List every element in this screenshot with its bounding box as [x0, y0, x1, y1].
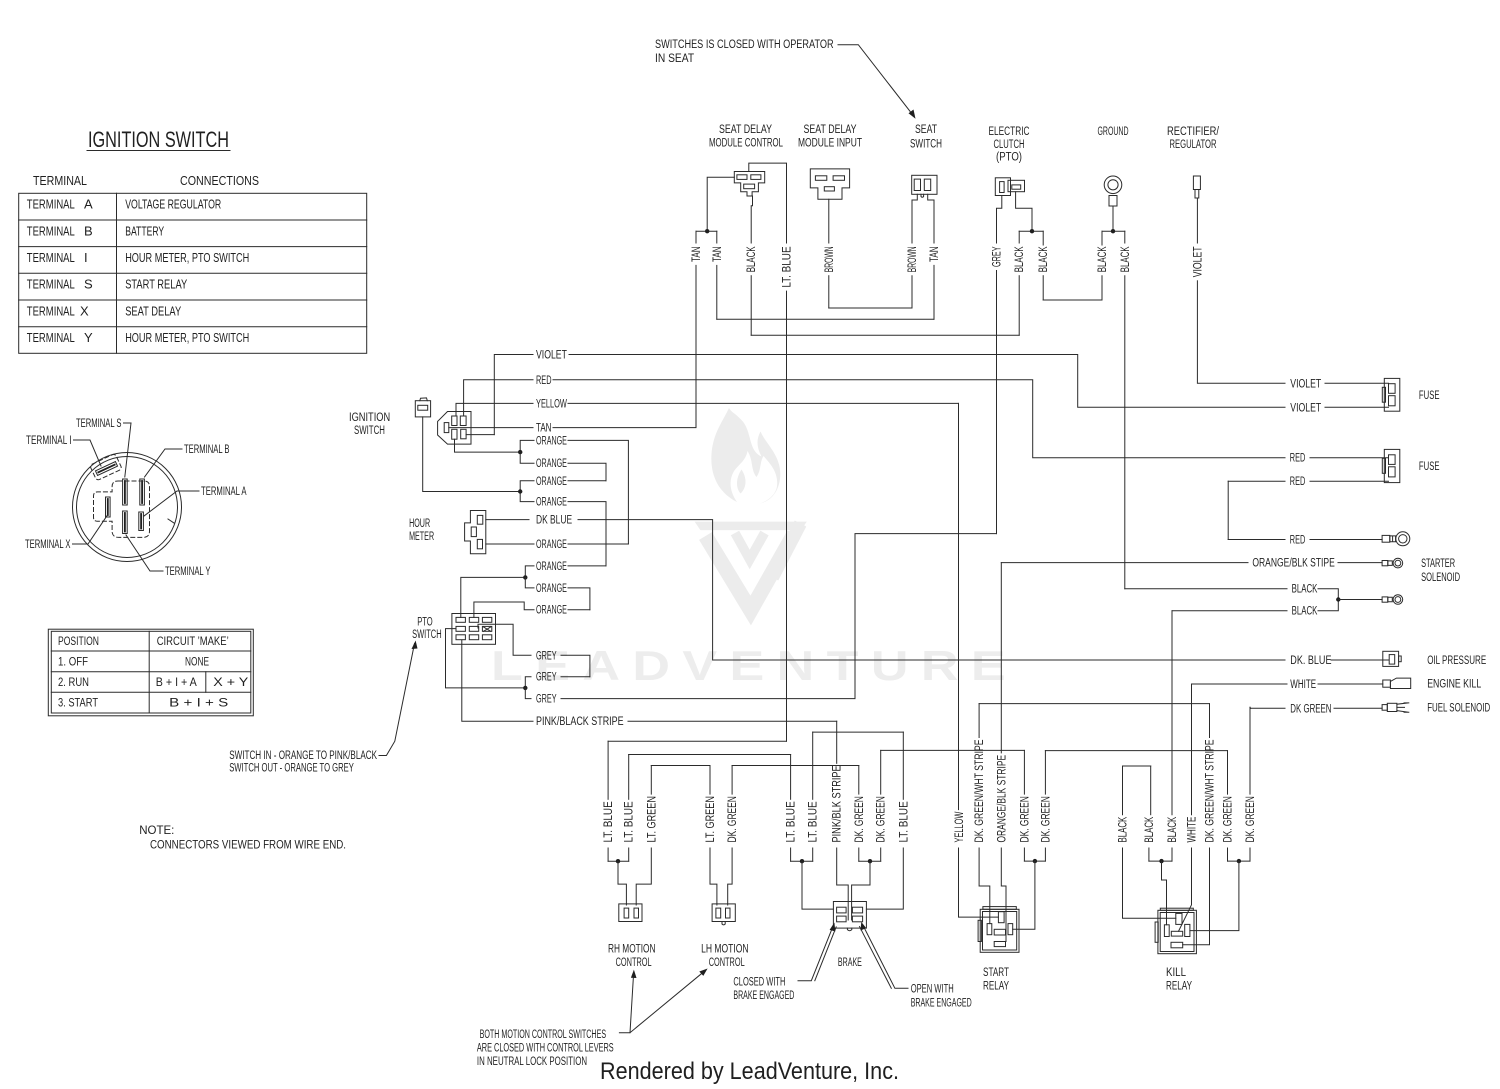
wire brown bus — [829, 307, 912, 309]
svg-text:RED: RED — [1290, 453, 1306, 465]
wire lt blue1 top link — [608, 740, 786, 742]
svg-text:TAN: TAN — [929, 246, 941, 262]
wire pink/black right — [628, 720, 837, 722]
wire start green to relay — [1013, 861, 1035, 929]
connector rectifier/regulator terminal — [1193, 176, 1200, 198]
wire black1 feed from connector — [751, 196, 752, 243]
wire orange2 right — [568, 463, 606, 481]
svg-text:IGNITION SWITCH: IGNITION SWITCH — [88, 127, 229, 152]
wire grey3 left — [525, 688, 531, 699]
connector fuel solenoid bullet — [1382, 703, 1409, 712]
wire dk green3 lower — [880, 848, 882, 861]
svg-text:X + Y: X + Y — [213, 677, 248, 689]
svg-text:DK. GREEN: DK. GREEN — [1223, 796, 1235, 842]
wire yellow lower — [959, 848, 999, 917]
watermark emblem small v — [735, 533, 765, 560]
terminal connections table — [19, 193, 367, 353]
wire black1 vertical lower — [750, 276, 752, 336]
wire tan2 vertical upper — [716, 231, 718, 243]
wire dk green k2 upper — [1227, 751, 1229, 795]
svg-text:TERMINAL Y: TERMINAL Y — [165, 566, 211, 578]
terminal Y bar — [123, 511, 128, 534]
svg-text:X: X — [80, 303, 89, 318]
connector PTO switch — [452, 614, 496, 645]
wire white to engine kill — [1318, 683, 1383, 685]
svg-text:BLACK: BLACK — [1014, 246, 1026, 272]
svg-text:LT. GREEN: LT. GREEN — [646, 796, 658, 842]
wire lt blue3 lower — [790, 848, 792, 861]
wire lt blue2 top link — [629, 754, 791, 756]
svg-text:ORANGE/BLK STRIPE: ORANGE/BLK STRIPE — [996, 755, 1008, 843]
wire lt blue5 lower — [866, 848, 903, 909]
wire grey clutch feed — [997, 196, 1002, 244]
svg-text:TERMINAL A: TERMINAL A — [201, 486, 247, 498]
wire brown1 feed — [828, 199, 830, 243]
svg-text:BLACK: BLACK — [1167, 816, 1179, 842]
wire red3 left — [1228, 539, 1285, 541]
wire dk grn/wht s upper — [978, 704, 980, 738]
svg-text:WHITE: WHITE — [1290, 679, 1316, 691]
svg-text:GREY: GREY — [536, 672, 557, 684]
wire pink/blk upper — [836, 721, 838, 763]
wire black k3 lower — [1171, 848, 1173, 861]
wire lt blue4 lower — [812, 848, 814, 861]
svg-text:1. OFF: 1. OFF — [58, 657, 88, 669]
wire dk green2 upper — [858, 766, 860, 795]
junction orange1-2 — [518, 450, 522, 454]
watermark emblem band — [695, 522, 807, 531]
wire grey2 left — [525, 677, 531, 688]
wire tan bus at ground of seat delay — [696, 230, 717, 232]
svg-text:DK GREEN: DK GREEN — [1290, 703, 1331, 715]
svg-text:GREY: GREY — [536, 650, 557, 662]
connector ignition switch plug — [438, 412, 471, 445]
svg-text:LH MOTION: LH MOTION — [701, 944, 749, 956]
junction black clutch — [1030, 229, 1034, 233]
wire lt blue4 upper — [812, 732, 814, 799]
svg-text:DK. GREEN: DK. GREEN — [876, 796, 888, 842]
wire orange/blk left — [1001, 562, 1248, 564]
svg-text:LEADVENTURE: LEADVENTURE — [491, 643, 1006, 690]
junction start green — [1033, 859, 1037, 863]
wire black k1k2 bus — [1123, 765, 1151, 767]
wire orange feed from ign pin — [455, 439, 521, 452]
svg-text:HOUR METER, PTO SWITCH: HOUR METER, PTO SWITCH — [125, 250, 249, 265]
ring terminal black ground — [1382, 595, 1403, 605]
svg-text:DK BLUE: DK BLUE — [536, 515, 572, 527]
svg-text:KILL: KILL — [1166, 967, 1186, 979]
svg-text:TAN: TAN — [691, 246, 703, 262]
wire orange2 left — [520, 452, 534, 463]
wire violet left — [494, 355, 533, 435]
svg-text:BRAKE ENGAGED: BRAKE ENGAGED — [733, 990, 794, 1002]
leader closed-with — [798, 926, 833, 981]
svg-text:IN NEUTRAL LOCK POSITION: IN NEUTRAL LOCK POSITION — [477, 1056, 587, 1068]
svg-text:LT. BLUE: LT. BLUE — [898, 801, 910, 842]
wire orange9 right — [568, 609, 590, 611]
wire ground stem — [1112, 206, 1114, 231]
terminal X bar — [106, 497, 111, 517]
terminal A bar — [139, 512, 144, 531]
wire lt blue top link — [749, 163, 787, 243]
wire orange3 right — [568, 480, 606, 482]
wire lt green1 lower — [636, 848, 651, 905]
wire orange7 left — [525, 566, 534, 578]
svg-text:SWITCH: SWITCH — [354, 425, 385, 437]
svg-text:HOUR METER, PTO SWITCH: HOUR METER, PTO SWITCH — [125, 330, 249, 345]
wire brown2 vertical lower — [911, 276, 913, 308]
wire dk grn/wht bus — [979, 703, 1209, 705]
svg-text:DK. GREEN: DK. GREEN — [854, 796, 866, 842]
wire grey1 right — [561, 655, 590, 676]
wire dk blue right — [578, 520, 1285, 660]
wire orange/blk to ring — [1338, 562, 1382, 564]
wire black r2 left — [1172, 610, 1287, 612]
wire black2 vertical upper — [1018, 231, 1020, 243]
svg-text:DK. BLUE: DK. BLUE — [1290, 655, 1331, 667]
svg-text:ORANGE/BLK STIPE: ORANGE/BLK STIPE — [1252, 558, 1335, 570]
svg-text:DK. GREEN/WHT STRIPE: DK. GREEN/WHT STRIPE — [1205, 739, 1217, 842]
wire orange3 left — [520, 481, 534, 492]
svg-text:VIOLET: VIOLET — [1192, 246, 1204, 277]
wire rh blue to connector — [618, 861, 626, 905]
svg-text:BLACK: BLACK — [1118, 816, 1130, 842]
svg-text:HOUR: HOUR — [409, 518, 430, 530]
svg-text:LT. BLUE: LT. BLUE — [786, 801, 798, 842]
wire start green bus — [1024, 860, 1045, 862]
svg-text:YELLOW: YELLOW — [536, 398, 567, 410]
svg-text:NOTE:: NOTE: — [139, 825, 174, 837]
wire orange8 left — [525, 577, 534, 588]
wire dk grn/wht k lower — [1183, 848, 1210, 945]
wire orange/blk s lower — [1001, 848, 1006, 942]
svg-text:SEAT DELAY: SEAT DELAY — [804, 124, 857, 136]
wire orange4 right — [568, 502, 606, 566]
wire dk green k3 upper — [1249, 707, 1251, 794]
svg-text:BLACK: BLACK — [1292, 606, 1318, 618]
wire black to ring — [1338, 599, 1382, 601]
wire orange6 right — [568, 543, 628, 545]
wire key switch feed — [423, 417, 521, 492]
svg-text:A: A — [84, 197, 93, 212]
svg-text:RED: RED — [1290, 535, 1306, 547]
wire orange/blk s upper — [1000, 563, 1002, 753]
wire black k2 lower — [1148, 848, 1150, 861]
wire black5 vertical upper — [1124, 231, 1126, 243]
svg-text:DK. GREEN: DK. GREEN — [1245, 796, 1257, 842]
wire red2 to fuse — [1310, 480, 1389, 482]
wire grey3 right long — [561, 534, 997, 699]
svg-text:BLACK: BLACK — [1120, 246, 1132, 272]
wire kill black to relay — [1162, 861, 1167, 925]
svg-text:ORANGE: ORANGE — [536, 458, 567, 470]
wire black k2 upper — [1150, 766, 1152, 815]
svg-text:SEAT DELAY: SEAT DELAY — [125, 303, 181, 318]
connector seat delay module control — [734, 172, 764, 197]
ground symbol — [1104, 176, 1122, 206]
wire dk green s1 lower — [1023, 848, 1025, 861]
svg-text:ORANGE: ORANGE — [536, 497, 567, 509]
svg-text:ORANGE: ORANGE — [536, 476, 567, 488]
svg-text:ORANGE: ORANGE — [536, 561, 567, 573]
wire dk green k3 lower — [1249, 848, 1251, 861]
svg-text:B + I + A: B + I + A — [156, 677, 197, 689]
svg-text:BRAKE ENGAGED: BRAKE ENGAGED — [911, 998, 972, 1010]
svg-text:CLUTCH: CLUTCH — [994, 139, 1025, 151]
terminal S bar — [123, 479, 128, 505]
wire black3-black4 link — [1043, 299, 1102, 301]
svg-text:SOLENOID: SOLENOID — [1421, 572, 1460, 584]
svg-text:BLACK: BLACK — [1097, 246, 1109, 272]
wire black5 vertical lower — [1124, 276, 1126, 589]
connector fuse 1 — [1382, 378, 1400, 411]
ring terminal starter solenoid — [1382, 558, 1403, 568]
relay kill relay — [1155, 908, 1196, 954]
wire tan1 feed: bus to seat-delay-ctrl — [707, 177, 734, 231]
wire dk green bus to brake — [732, 765, 859, 767]
wire red3 to ring — [1310, 539, 1382, 541]
wire lt blue1 lower — [607, 848, 609, 861]
wire black3 vertical lower — [1042, 276, 1044, 300]
wire grey1 left — [478, 624, 531, 655]
position / circuit make table — [48, 629, 253, 716]
svg-text:ENGINE KILL: ENGINE KILL — [1427, 679, 1481, 691]
svg-text:IN SEAT: IN SEAT — [655, 53, 694, 65]
connector oil pressure — [1383, 651, 1401, 666]
wire red2 left — [1228, 480, 1285, 482]
svg-text:ORANGE: ORANGE — [536, 605, 567, 617]
wire dk grn/wht k upper — [1209, 704, 1211, 738]
wire dk green to fuel solenoid — [1334, 707, 1382, 709]
svg-text:MODULE INPUT: MODULE INPUT — [798, 138, 862, 150]
svg-text:S: S — [84, 277, 93, 292]
svg-text:PINK/BLK STRIPE: PINK/BLK STRIPE — [832, 765, 844, 842]
wire kill green to relay — [1190, 861, 1239, 931]
wire violet1 to fuse — [1325, 382, 1389, 384]
svg-text:CLOSED WITH: CLOSED WITH — [733, 977, 785, 989]
wire dk blue to oil pressure — [1331, 659, 1389, 661]
svg-text:CONNECTIONS: CONNECTIONS — [180, 173, 259, 188]
svg-text:I: I — [84, 250, 88, 265]
junction orange3-4 — [518, 489, 522, 493]
wire black r2 right — [1318, 600, 1338, 611]
wire tan2 vertical lower — [716, 265, 718, 319]
svg-text:CONTROL: CONTROL — [709, 957, 745, 969]
wire dk green s2 lower — [1044, 848, 1046, 861]
wire black k1 upper — [1122, 766, 1124, 815]
wire orange7 right — [568, 565, 606, 567]
junction black ring — [1336, 597, 1340, 601]
svg-text:FUEL SOLENOID: FUEL SOLENOID — [1427, 703, 1490, 715]
svg-text:GREY: GREY — [536, 694, 557, 706]
svg-text:TERMINAL I: TERMINAL I — [26, 435, 72, 447]
wire pink/black feed — [462, 640, 533, 721]
wire red1 to fuse — [1310, 457, 1389, 459]
svg-text:LT. GREEN: LT. GREEN — [705, 796, 717, 842]
wire white left — [1192, 683, 1287, 685]
wire orange1 right — [568, 440, 628, 544]
wire black4 vertical lower — [1101, 276, 1103, 300]
wire tan bus to seat switch — [717, 318, 934, 320]
svg-text:SWITCHES IS CLOSED WITH OPERAT: SWITCHES IS CLOSED WITH OPERATOR — [655, 39, 834, 51]
wire black k1 lower — [1123, 848, 1176, 918]
leader to PTO switch label — [379, 644, 415, 756]
wire lt blue3 upper — [790, 755, 792, 800]
svg-text:ORANGE: ORANGE — [536, 539, 567, 551]
svg-text:RH MOTION: RH MOTION — [608, 944, 656, 956]
svg-text:LT. BLUE: LT. BLUE — [808, 801, 820, 842]
svg-text:TERMINAL: TERMINAL — [27, 197, 75, 212]
svg-text:RELAY: RELAY — [983, 981, 1009, 993]
wire brake green bus — [859, 860, 881, 862]
svg-text:FUSE: FUSE — [1419, 390, 1440, 402]
wire dk green left — [1251, 707, 1285, 709]
svg-text:OIL PRESSURE: OIL PRESSURE — [1427, 655, 1486, 667]
wire violet right — [569, 355, 1285, 408]
junction kill black — [1159, 859, 1163, 863]
svg-text:METER: METER — [409, 531, 434, 543]
wire lt blue2 upper — [628, 755, 630, 800]
svg-text:LT. BLUE: LT. BLUE — [624, 801, 636, 842]
svg-text:MODULE CONTROL: MODULE CONTROL — [709, 138, 783, 150]
leader open-with — [863, 925, 908, 988]
svg-text:OPEN WITH: OPEN WITH — [911, 984, 954, 996]
junction brake green — [868, 859, 872, 863]
svg-text:TERMINAL S: TERMINAL S — [76, 418, 122, 430]
wire dk green k3 top link — [1249, 707, 1252, 708]
svg-text:TAN: TAN — [536, 423, 552, 435]
svg-text:Rendered by LeadVenture, Inc.: Rendered by LeadVenture, Inc. — [600, 1058, 899, 1085]
svg-text:FUSE: FUSE — [1419, 461, 1440, 473]
svg-text:BROWN: BROWN — [824, 246, 836, 272]
wire violet2 to fuse — [1325, 406, 1389, 408]
wire ground bus — [1102, 230, 1125, 232]
watermark emblem big V — [706, 534, 795, 611]
wire black3 vertical upper — [1042, 231, 1044, 245]
svg-text:SWITCH: SWITCH — [412, 629, 442, 641]
wire yellow left — [456, 403, 533, 416]
wire lt blue2 lower — [628, 848, 630, 861]
svg-text:CONTROL: CONTROL — [616, 957, 652, 969]
wire violet1 left — [1198, 382, 1285, 384]
svg-text:TERMINAL X: TERMINAL X — [25, 539, 71, 551]
svg-text:BLACK: BLACK — [1292, 584, 1318, 596]
svg-text:BROWN: BROWN — [907, 246, 919, 272]
wire lt green bus — [651, 765, 710, 767]
svg-text:BLACK: BLACK — [1038, 246, 1050, 272]
svg-text:B: B — [84, 223, 93, 238]
svg-text:VIOLET: VIOLET — [1290, 378, 1321, 390]
connector LH motion control — [712, 904, 735, 925]
wire orange4 left — [520, 492, 534, 502]
svg-text:ORANGE: ORANGE — [536, 435, 567, 447]
junction tan pair — [705, 229, 709, 233]
svg-text:SWITCH OUT - ORANGE TO GREY: SWITCH OUT - ORANGE TO GREY — [229, 763, 354, 775]
wire red right — [553, 380, 1285, 458]
wire pink/blk lower — [837, 848, 849, 920]
wire violet rectifier upper — [1196, 198, 1198, 243]
connector seat delay module input — [810, 169, 849, 199]
svg-text:VIOLET: VIOLET — [1290, 402, 1321, 414]
connector fuse 2 — [1382, 449, 1400, 482]
ring terminal red (battery) — [1382, 532, 1410, 546]
dashed housing around pins — [90, 453, 150, 537]
connector engine kill spade — [1383, 678, 1411, 688]
svg-text:DK. GREEN: DK. GREEN — [1040, 796, 1052, 842]
svg-text:IGNITION: IGNITION — [349, 412, 390, 424]
terminal B bar — [140, 479, 145, 505]
watermark LeadVenture logo flame — [711, 408, 780, 504]
svg-text:BOTH MOTION CONTROL SWITCHES: BOTH MOTION CONTROL SWITCHES — [480, 1029, 607, 1041]
svg-text:START: START — [983, 967, 1009, 979]
wire orange8 right — [568, 588, 590, 610]
wire dk blue left — [486, 519, 529, 521]
wire tan3 jog at seat switch — [928, 194, 934, 243]
svg-text:DK. GREEN: DK. GREEN — [1019, 796, 1031, 842]
svg-text:LT. BLUE: LT. BLUE — [782, 246, 794, 287]
wire grey vertical long — [996, 271, 998, 534]
svg-text:3. START: 3. START — [58, 698, 98, 710]
svg-text:RECTIFIER/: RECTIFIER/ — [1167, 126, 1220, 138]
svg-text:DK. GREEN/WHT STRIPE: DK. GREEN/WHT STRIPE — [974, 739, 986, 842]
svg-text:BRAKE: BRAKE — [838, 957, 862, 969]
junction grey2-3 — [523, 686, 527, 690]
svg-text:ORANGE: ORANGE — [536, 583, 567, 595]
wire black bus to clutch — [751, 334, 1019, 336]
wire dk green s2 top link — [1045, 750, 1227, 752]
wire kill green bus — [1228, 860, 1251, 862]
wire violet rectifier lower — [1196, 281, 1198, 384]
svg-text:TERMINAL: TERMINAL — [27, 250, 75, 265]
connector RH motion control — [619, 904, 642, 922]
wire red2-red3 link — [1227, 481, 1229, 539]
wire red left — [464, 380, 533, 416]
svg-text:2. RUN: 2. RUN — [58, 677, 89, 689]
wire black clutch right feed — [1016, 192, 1032, 232]
svg-text:ARE CLOSED WITH CONTROL LEVERS: ARE CLOSED WITH CONTROL LEVERS — [477, 1043, 614, 1055]
connector brake switch — [833, 902, 866, 931]
wire dk grn/wht s lower — [979, 848, 990, 924]
wire tan1 vertical lower + to TAN label — [553, 265, 696, 427]
wire black2 vertical lower — [1018, 276, 1020, 336]
wire brake blue to connector — [802, 861, 833, 909]
svg-text:BLACK: BLACK — [1144, 816, 1156, 842]
svg-text:Y: Y — [84, 330, 93, 345]
junction orange7-8 — [523, 575, 527, 579]
junction ground — [1111, 229, 1115, 233]
wire lt blue4-5 bus top — [813, 731, 904, 733]
wire lt blue vertical long — [786, 291, 788, 741]
wire orange1 left — [520, 440, 534, 452]
svg-text:GROUND: GROUND — [1098, 126, 1129, 138]
svg-text:TERMINAL: TERMINAL — [27, 330, 75, 345]
svg-text:BLACK: BLACK — [746, 246, 758, 272]
wire pto feed orange7 — [461, 577, 526, 617]
wire yellow long — [958, 403, 960, 809]
svg-text:TAN: TAN — [712, 246, 724, 262]
svg-text:STARTER: STARTER — [1421, 558, 1455, 570]
svg-text:DK. GREEN: DK. GREEN — [727, 796, 739, 842]
svg-text:TERMINAL: TERMINAL — [27, 303, 75, 318]
wire pto feed orange9 — [474, 602, 534, 617]
wire black r1 left — [1125, 588, 1287, 590]
svg-text:SWITCH: SWITCH — [910, 139, 942, 151]
wire dk green k2 lower — [1227, 848, 1229, 861]
wire violet into pin — [466, 434, 494, 436]
junction kill green — [1237, 859, 1241, 863]
svg-text:WHITE: WHITE — [1187, 816, 1199, 842]
wire brake blue bus — [791, 860, 813, 862]
